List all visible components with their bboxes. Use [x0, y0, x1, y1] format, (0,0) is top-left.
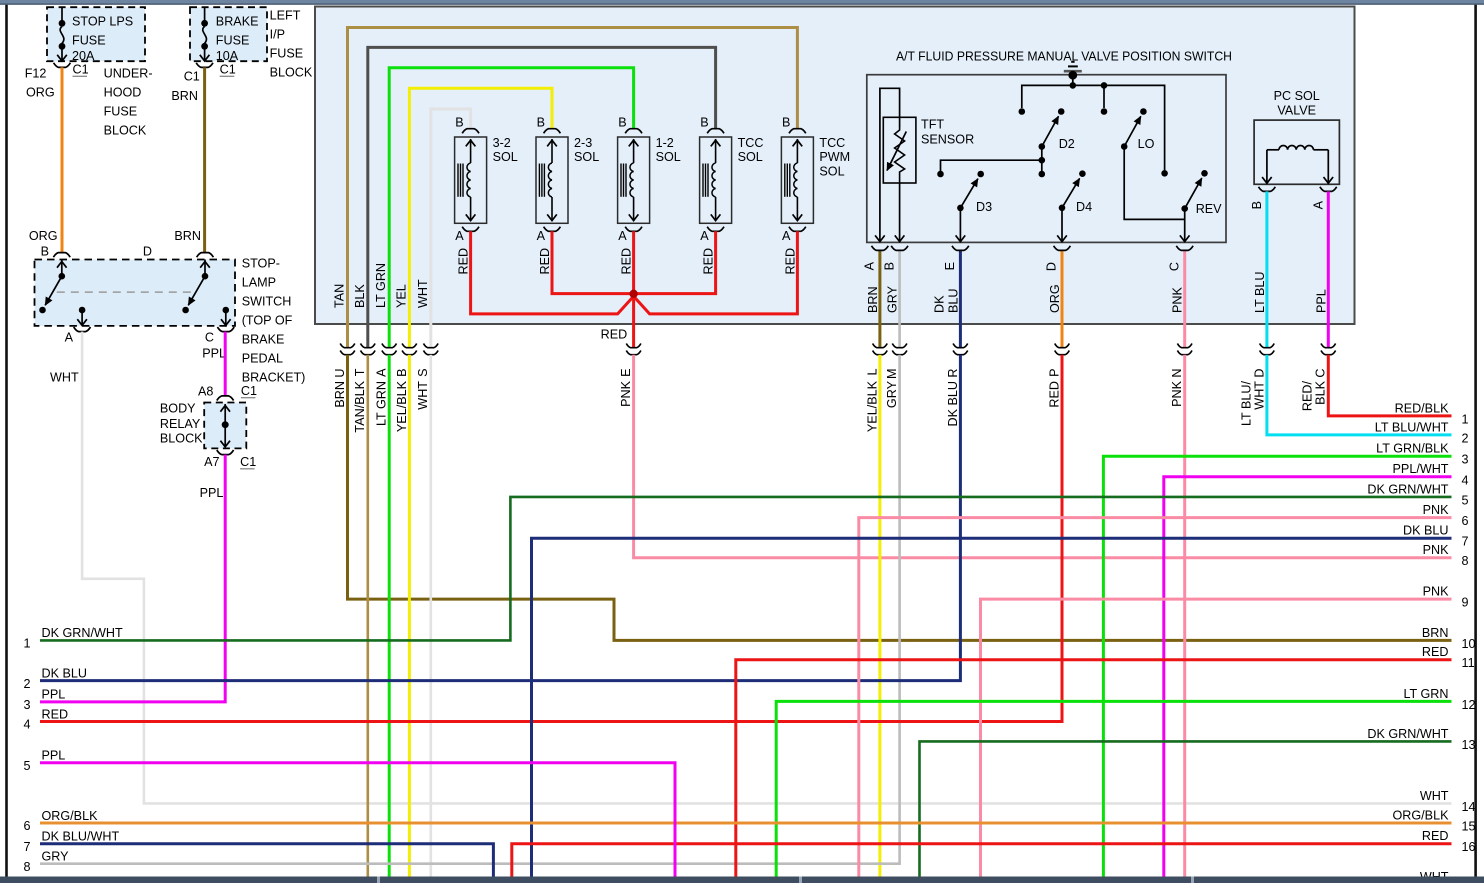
svg-text:C: C: [1167, 262, 1181, 271]
svg-text:A8: A8: [198, 385, 213, 399]
svg-text:BLOCK: BLOCK: [160, 431, 203, 445]
ground: [1071, 61, 1074, 63]
svg-text:A: A: [375, 368, 389, 377]
svg-text:TCC: TCC: [738, 136, 764, 150]
svg-text:BRAKE: BRAKE: [242, 333, 285, 347]
svg-text:D: D: [143, 245, 152, 259]
svg-text:GRY: GRY: [885, 380, 899, 408]
switch D3: [977, 171, 984, 178]
svg-text:BRN: BRN: [1422, 626, 1449, 640]
svg-text:A: A: [537, 229, 546, 243]
connector terminal E: [626, 344, 641, 348]
wire WHT to 3-2 SOL B: [431, 109, 471, 348]
svg-text:ORG: ORG: [1048, 284, 1062, 313]
terminal A of stop-lamp switch: [79, 307, 86, 314]
node contact P stub left: [1019, 108, 1026, 115]
svg-text:A/T FLUID PRESSURE MANUAL VALV: A/T FLUID PRESSURE MANUAL VALVE POSITION…: [896, 50, 1232, 64]
svg-text:BRN: BRN: [174, 229, 201, 243]
svg-text:C: C: [205, 331, 214, 345]
wire GRY from M to left row 8: [40, 355, 900, 864]
coil 2-3 SOL: [548, 163, 552, 197]
svg-text:YEL/BLK: YEL/BLK: [865, 380, 879, 432]
svg-text:DK BLU: DK BLU: [946, 381, 960, 427]
svg-text:B: B: [782, 116, 790, 130]
svg-text:1-2: 1-2: [656, 136, 674, 150]
svg-text:PWM: PWM: [819, 150, 850, 164]
solenoid 3-2 SOL terminal A: [462, 227, 479, 232]
PC SOL VALVE terminal A: [1320, 187, 1337, 192]
svg-text:15: 15: [1462, 820, 1476, 834]
solenoid 2-3 SOL body: [536, 137, 568, 223]
wire WHT from S down offpage: [429, 355, 432, 878]
svg-text:B: B: [882, 262, 896, 270]
svg-text:PNK: PNK: [1423, 543, 1449, 557]
wire PPL from stop-lamp C to body relay block: [224, 332, 227, 396]
svg-text:A: A: [1311, 200, 1325, 209]
switch arm B: [45, 276, 62, 305]
solenoid TCC SOL body: [700, 137, 732, 223]
svg-text:11: 11: [1462, 656, 1475, 670]
wire left row 5 PPL: [40, 763, 675, 878]
svg-text:F12: F12: [25, 67, 47, 81]
svg-text:A: A: [782, 229, 791, 243]
svg-text:BLU: BLU: [946, 289, 960, 314]
svg-text:TCC: TCC: [819, 136, 845, 150]
TFT sensor loop wire: [880, 88, 900, 241]
svg-text:TAN/BLK: TAN/BLK: [353, 380, 367, 432]
svg-text:20A: 20A: [72, 49, 95, 63]
switch REV: [1161, 170, 1168, 177]
svg-text:BRN: BRN: [866, 286, 880, 313]
svg-text:DK BLU: DK BLU: [42, 666, 88, 680]
connector terminal R: [953, 344, 968, 348]
svg-text:BLK: BLK: [1314, 380, 1328, 404]
svg-text:REV: REV: [1196, 202, 1222, 216]
svg-text:8: 8: [1462, 554, 1469, 568]
svg-text:DK GRN/WHT: DK GRN/WHT: [42, 626, 123, 640]
svg-text:RED: RED: [538, 248, 552, 275]
svg-text:SENSOR: SENSOR: [921, 133, 974, 147]
A/T solenoid assembly box: [315, 7, 1355, 325]
connector terminal N: [1177, 344, 1192, 348]
svg-text:FUSE: FUSE: [72, 34, 106, 48]
svg-text:FUSE: FUSE: [104, 105, 138, 119]
svg-text:BRN: BRN: [333, 381, 347, 408]
wire row 15 ORG/BLK full width: [40, 822, 1452, 825]
svg-text:3-2: 3-2: [493, 136, 511, 150]
svg-text:2: 2: [1462, 431, 1469, 445]
svg-text:E: E: [619, 369, 633, 377]
svg-text:1: 1: [24, 637, 31, 651]
svg-text:U: U: [333, 369, 347, 378]
wire row 16 RED: [512, 844, 1452, 878]
wire row 4 PPL/WHT: [1164, 477, 1452, 877]
wire D4 to terminal D: [1061, 208, 1063, 241]
svg-text:SOL: SOL: [819, 164, 844, 178]
svg-text:B: B: [700, 116, 708, 130]
svg-text:LT GRN: LT GRN: [374, 263, 388, 308]
svg-text:YEL/BLK: YEL/BLK: [395, 380, 409, 432]
svg-text:M: M: [885, 369, 899, 380]
wire LT BLU from PC SOL B: [1265, 191, 1268, 347]
svg-text:PNK: PNK: [619, 380, 633, 406]
coil TCC PWM SOL: [794, 163, 798, 197]
connector terminal A: [382, 344, 397, 348]
wire YEL to 2-3 SOL B: [409, 88, 552, 348]
wire ORG from F12 fuse to stop-lamp switch B: [61, 67, 64, 252]
wire TAN/BLK from T down offpage: [366, 355, 369, 878]
PC SOL VALVE terminal B: [1259, 187, 1276, 192]
wire RED from 3-2 SOL A: [471, 231, 634, 314]
PC SOL VALVE box: [1254, 120, 1339, 184]
coil 3-2 SOL: [467, 163, 471, 197]
svg-text:RED: RED: [620, 248, 634, 275]
node chain under D2: [1041, 147, 1043, 175]
svg-text:ORG/BLK: ORG/BLK: [42, 809, 99, 823]
svg-text:RELAY: RELAY: [160, 417, 201, 431]
svg-text:1: 1: [1462, 412, 1469, 426]
svg-text:RED/: RED/: [1301, 381, 1315, 412]
wire RED from TCC PWM SOL A: [634, 231, 798, 314]
svg-text:PPL: PPL: [1314, 289, 1328, 313]
svg-text:LT BLU: LT BLU: [1253, 271, 1267, 313]
top window bar: [0, 0, 1484, 5]
svg-text:5: 5: [24, 759, 31, 773]
svg-text:FUSE: FUSE: [270, 47, 304, 61]
svg-text:B: B: [1250, 201, 1264, 209]
connector terminal S: [424, 344, 439, 348]
svg-text:WHT: WHT: [416, 381, 430, 410]
connector terminal M: [892, 344, 907, 348]
svg-text:6: 6: [24, 819, 31, 833]
svg-text:A: A: [455, 229, 464, 243]
wire TAN to TCC PWM SOL B: [348, 28, 798, 348]
wire BRN terminal A: [878, 250, 881, 347]
fuse BRAKE 10A symbol: [204, 7, 206, 20]
svg-text:B: B: [41, 245, 49, 259]
ground bus wire: [1072, 75, 1074, 85]
wire BLK to TCC SOL B: [368, 47, 716, 347]
svg-text:ORG: ORG: [26, 86, 55, 100]
svg-text:R: R: [946, 369, 960, 378]
svg-text:BLK: BLK: [353, 284, 367, 308]
svg-text:ORG/BLK: ORG/BLK: [1393, 808, 1450, 822]
wire row 11 RED: [736, 660, 1452, 878]
solenoid 3-2 SOL body: [455, 137, 487, 223]
svg-text:3: 3: [24, 698, 31, 712]
svg-text:D2: D2: [1059, 137, 1075, 151]
svg-text:WHT: WHT: [416, 279, 430, 308]
svg-text:3: 3: [1462, 453, 1469, 467]
wire DK BLU terminal E: [959, 250, 962, 347]
stop-lamp switch box: [35, 260, 236, 326]
svg-text:BRACKET): BRACKET): [242, 371, 306, 385]
svg-text:BLOCK: BLOCK: [270, 66, 313, 80]
wire row 3 LT GRN/BLK: [1103, 456, 1451, 877]
wire row 12 LT GRN: [776, 701, 1451, 877]
svg-text:A: A: [65, 331, 74, 345]
svg-text:S: S: [416, 369, 430, 377]
svg-text:LEFT: LEFT: [270, 9, 301, 23]
switch LO: [1103, 85, 1105, 108]
coil 1-2 SOL: [630, 163, 634, 197]
svg-text:(TOP OF: (TOP OF: [242, 314, 293, 328]
wire to D3 contact: [941, 160, 1042, 171]
svg-text:C1: C1: [73, 63, 89, 77]
svg-text:7: 7: [1462, 535, 1469, 549]
wire ORG terminal D: [1061, 250, 1064, 347]
wire row 13 DK GRN/WHT: [920, 741, 1452, 877]
right page border: [1474, 5, 1477, 877]
svg-text:DK: DK: [932, 295, 946, 313]
connector terminal C PC SOL: [1321, 344, 1336, 348]
manual valve position switch box: [867, 75, 1226, 243]
wire row 7 DK BLU: [532, 538, 1452, 877]
svg-text:D4: D4: [1076, 200, 1092, 214]
wire RED/BLK from C to right row 1: [1328, 355, 1451, 416]
TFT sensor box: [883, 117, 916, 183]
svg-text:PNK: PNK: [1423, 503, 1449, 517]
svg-text:16: 16: [1462, 840, 1476, 854]
svg-text:LAMP: LAMP: [242, 276, 276, 290]
svg-text:B: B: [455, 116, 463, 130]
wire BRN from U to right row 10: [348, 355, 1452, 641]
junction RED solenoid common: [629, 290, 637, 298]
svg-text:D: D: [1252, 369, 1266, 378]
TFT sensor thermistor: [895, 127, 905, 183]
wire PPL from body relay block to left row 3: [40, 455, 225, 702]
wire PNK terminal C: [1183, 250, 1186, 347]
svg-text:SOL: SOL: [574, 150, 599, 164]
svg-text:YEL: YEL: [394, 284, 408, 308]
svg-text:TFT: TFT: [921, 118, 944, 132]
svg-text:B: B: [537, 116, 545, 130]
svg-text:STOP LPS: STOP LPS: [72, 15, 133, 29]
svg-text:SOL: SOL: [738, 150, 763, 164]
wire GRY terminal B: [898, 250, 901, 347]
svg-text:C1: C1: [220, 63, 236, 77]
svg-text:BRN: BRN: [171, 89, 198, 103]
svg-text:D3: D3: [976, 200, 992, 214]
svg-text:LT GRN: LT GRN: [1403, 687, 1448, 701]
wire REV to terminal C: [1184, 209, 1186, 242]
switch D2: [1058, 108, 1065, 115]
wire RED from P to left row 4: [40, 355, 1062, 722]
wire row 9 PNK: [981, 599, 1452, 877]
wire BRN from brake fuse to stop-lamp switch D: [203, 67, 206, 252]
svg-text:RED: RED: [457, 248, 471, 275]
svg-text:RED/BLK: RED/BLK: [1395, 401, 1449, 415]
svg-text:SOL: SOL: [493, 150, 518, 164]
connector terminal D PC SOL: [1260, 344, 1275, 348]
svg-text:E: E: [943, 262, 957, 270]
svg-text:C1: C1: [240, 455, 256, 469]
svg-text:DK BLU/WHT: DK BLU/WHT: [42, 830, 120, 844]
divider dashed line inside stop-lamp switch: [57, 291, 196, 293]
svg-text:SOL: SOL: [656, 150, 681, 164]
fuse block box STOP LPS: [47, 7, 145, 61]
svg-text:LT GRN: LT GRN: [375, 381, 389, 426]
svg-text:PPL: PPL: [200, 486, 224, 500]
svg-text:UNDER-: UNDER-: [104, 67, 153, 81]
svg-text:4: 4: [1462, 473, 1469, 487]
svg-text:I/P: I/P: [270, 28, 285, 42]
svg-text:A: A: [700, 229, 709, 243]
svg-text:B: B: [395, 369, 409, 377]
terminal C of stop-lamp switch: [223, 307, 230, 314]
connector terminal B: [402, 344, 417, 348]
connector terminal T: [361, 344, 376, 348]
wire LT GRN from A down offpage: [388, 355, 391, 878]
wire left row 7 DK BLU/WHT: [40, 844, 493, 878]
connector terminal L: [873, 344, 888, 348]
svg-text:4: 4: [24, 718, 31, 732]
wire LT BLU/WHT from D to right row 2: [1267, 355, 1452, 435]
svg-text:WHT: WHT: [1252, 381, 1266, 410]
solenoid TCC SOL terminal A: [707, 227, 724, 232]
svg-text:A7: A7: [204, 455, 219, 469]
svg-text:PC SOL: PC SOL: [1274, 89, 1320, 103]
svg-text:VALVE: VALVE: [1277, 104, 1316, 118]
svg-text:WHT: WHT: [1420, 789, 1449, 803]
connector C1 A7 below body relay block: [217, 450, 234, 455]
svg-text:RED: RED: [601, 328, 628, 342]
svg-text:10A: 10A: [216, 49, 239, 63]
solenoid 2-3 SOL terminal A: [544, 227, 561, 232]
svg-text:12: 12: [1462, 698, 1476, 712]
wire RED from 2-3 SOL A: [552, 231, 632, 293]
svg-text:A: A: [618, 229, 627, 243]
wire row 6 PNK: [859, 518, 1452, 878]
svg-text:2-3: 2-3: [574, 136, 592, 150]
wire RED from 1-2 SOL A down to connector E: [632, 231, 635, 347]
svg-text:PNK: PNK: [1171, 287, 1185, 313]
svg-text:DK GRN/WHT: DK GRN/WHT: [1367, 727, 1448, 741]
svg-text:RED: RED: [702, 248, 716, 275]
connector C1 under brake fuse: [196, 63, 213, 68]
body relay block box: [204, 403, 246, 449]
wire PNK from E to right row 8: [634, 355, 1452, 558]
solenoid TCC PWM SOL terminal A: [789, 227, 806, 232]
body relay block internal wire: [224, 404, 226, 447]
svg-text:N: N: [1170, 369, 1184, 378]
connector C1 A8 above body relay block: [217, 396, 234, 401]
svg-text:STOP-: STOP-: [242, 257, 280, 271]
svg-text:RED: RED: [1422, 829, 1449, 843]
svg-text:14: 14: [1462, 800, 1476, 814]
wire D3 to terminal E: [959, 208, 961, 241]
connector C1 under stop lps fuse: [54, 63, 71, 68]
svg-text:WHT: WHT: [50, 371, 79, 385]
svg-text:RED: RED: [1047, 381, 1061, 408]
svg-text:PEDAL: PEDAL: [242, 352, 283, 366]
wire LO to REV pole: [1124, 147, 1185, 220]
svg-text:9: 9: [1462, 596, 1469, 610]
svg-text:B: B: [618, 116, 626, 130]
svg-text:7: 7: [24, 840, 31, 854]
wire YEL/BLK from L down offpage: [878, 355, 881, 878]
wire RED from TCC SOL A: [635, 231, 716, 293]
svg-text:PPL: PPL: [202, 347, 226, 361]
svg-text:8: 8: [24, 860, 31, 874]
switch D4: [1079, 170, 1086, 177]
coil TCC SOL: [712, 163, 716, 197]
svg-text:10: 10: [1462, 637, 1476, 651]
svg-text:RED: RED: [783, 248, 797, 275]
PC SOL VALVE coil: [1267, 149, 1279, 151]
svg-text:PPL: PPL: [42, 749, 66, 763]
svg-text:SWITCH: SWITCH: [242, 295, 292, 309]
left page border: [5, 5, 8, 877]
solenoid 1-2 SOL body: [618, 137, 650, 223]
svg-text:BODY: BODY: [160, 402, 196, 416]
svg-text:PNK: PNK: [1170, 380, 1184, 406]
svg-text:PPL/WHT: PPL/WHT: [1393, 462, 1449, 476]
svg-text:ORG: ORG: [29, 229, 58, 243]
fuse F12 STOP LPS 20A symbol: [61, 7, 63, 20]
svg-text:L: L: [865, 369, 879, 376]
svg-text:LT BLU/: LT BLU/: [1239, 380, 1253, 426]
svg-text:6: 6: [1462, 514, 1469, 528]
svg-text:2: 2: [24, 677, 31, 691]
svg-text:RED: RED: [1422, 645, 1449, 659]
svg-text:GRY: GRY: [42, 850, 70, 864]
svg-text:C1: C1: [241, 384, 257, 398]
wire PPL from PC SOL A: [1327, 191, 1330, 347]
svg-text:T: T: [353, 368, 367, 376]
svg-text:5: 5: [1462, 493, 1469, 507]
svg-text:LO: LO: [1138, 137, 1155, 151]
solenoid 1-2 SOL terminal A: [625, 227, 642, 232]
svg-text:LT GRN/BLK: LT GRN/BLK: [1376, 442, 1449, 456]
wire row 5 DK GRN/WHT link to left row 1: [40, 497, 1452, 641]
wire LT GRN to 1-2 SOL B: [389, 68, 633, 348]
connector terminal U: [340, 344, 355, 348]
wire DK BLU from R to left row 2: [40, 355, 960, 681]
svg-text:PNK: PNK: [1423, 585, 1449, 599]
svg-text:C1: C1: [184, 70, 200, 84]
svg-text:TAN: TAN: [333, 284, 347, 308]
connector terminal P: [1055, 344, 1070, 348]
wire YEL/BLK from B down offpage: [408, 355, 411, 878]
svg-text:HOOD: HOOD: [104, 86, 142, 100]
svg-text:P: P: [1047, 369, 1061, 377]
svg-text:LT BLU/WHT: LT BLU/WHT: [1375, 420, 1449, 434]
wire PNK from N down offpage: [1183, 355, 1186, 878]
svg-text:BRAKE: BRAKE: [216, 15, 259, 29]
solenoid TCC PWM SOL body: [781, 137, 813, 223]
wire WHT from stop-lamp A to row 14: [82, 332, 1451, 804]
switch arm D: [188, 276, 205, 305]
svg-text:BLOCK: BLOCK: [104, 124, 147, 138]
svg-text:GRY: GRY: [886, 285, 900, 313]
svg-text:PPL: PPL: [42, 688, 66, 702]
svg-text:DK BLU: DK BLU: [1403, 524, 1449, 538]
bottom window bar: [0, 877, 1484, 884]
svg-text:FUSE: FUSE: [216, 34, 250, 48]
switch pole B: [61, 260, 63, 277]
svg-text:C: C: [1314, 369, 1328, 378]
svg-text:RED: RED: [42, 707, 69, 721]
fuse block box BRAKE: [190, 7, 267, 61]
svg-text:D: D: [1045, 262, 1059, 271]
svg-text:DK GRN/WHT: DK GRN/WHT: [1367, 482, 1448, 496]
svg-text:13: 13: [1462, 738, 1476, 752]
svg-text:A: A: [863, 261, 877, 270]
